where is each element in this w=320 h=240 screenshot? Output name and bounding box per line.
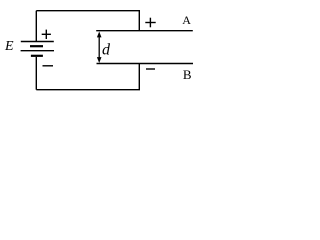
svg-text:A: A: [182, 13, 191, 27]
svg-text:d: d: [102, 42, 111, 59]
svg-text:E: E: [4, 39, 14, 54]
svg-text:B: B: [183, 67, 192, 82]
